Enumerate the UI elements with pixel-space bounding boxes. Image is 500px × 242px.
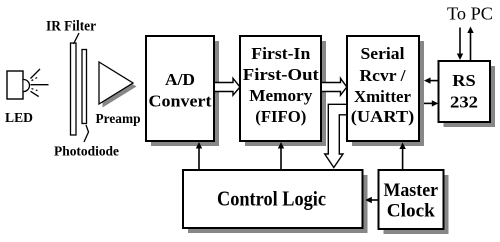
svg-text:LED: LED — [5, 111, 33, 126]
wire Control Logic to FIFO — [278, 142, 284, 170]
svg-text:IR Filter: IR Filter — [46, 18, 96, 34]
svg-text:Xmitter: Xmitter — [354, 87, 411, 106]
IR filter slat — [71, 43, 77, 135]
LED light rays — [31, 69, 49, 97]
svg-text:Control Logic: Control Logic — [217, 187, 326, 211]
wire Master Clock to Control Logic — [365, 197, 378, 203]
svg-text:Preamp: Preamp — [96, 112, 141, 127]
leader line IR Filter — [74, 33, 80, 44]
block UART — [347, 36, 419, 141]
svg-text:(UART): (UART) — [351, 107, 415, 126]
block FIFO memory shadow — [245, 41, 326, 146]
hollow arrow A/D to FIFO — [213, 78, 240, 95]
hollow arrow FIFO to UART — [321, 78, 347, 95]
block A/D Converter shadow — [151, 41, 219, 146]
svg-text:Clock: Clock — [387, 201, 435, 222]
block A/D Converter — [146, 36, 214, 141]
svg-text:(FIFO): (FIFO) — [255, 107, 306, 126]
block Master Clock shadow — [384, 175, 449, 234]
block Control Logic — [183, 170, 363, 228]
svg-text:Convert: Convert — [149, 92, 212, 111]
svg-text:First-Out: First-Out — [243, 65, 319, 84]
preamp amplifier A1 — [99, 62, 133, 104]
svg-text:Rcvr /: Rcvr / — [360, 66, 406, 85]
svg-text:Memory: Memory — [249, 86, 312, 105]
wire RS-232 to PC — [467, 27, 473, 61]
svg-text:Serial: Serial — [361, 44, 405, 63]
svg-text:A/D: A/D — [165, 70, 195, 89]
svg-text:First-In: First-In — [251, 44, 311, 63]
svg-text:Master: Master — [384, 180, 439, 201]
leader line Photodiode — [84, 125, 89, 142]
svg-text:Photodiode: Photodiode — [54, 145, 119, 160]
preamp amplifier shadow — [103, 66, 137, 108]
svg-text:RS: RS — [452, 71, 476, 90]
block RS-232 — [439, 61, 491, 122]
block UART shadow — [352, 41, 424, 146]
svg-text:232: 232 — [450, 93, 478, 112]
svg-text:To PC: To PC — [447, 4, 493, 24]
wire PC to RS-232 — [457, 28, 463, 61]
wire UART to RS-232 — [424, 100, 438, 106]
LED D1 — [7, 71, 30, 99]
wire Control Logic to A/D — [196, 142, 202, 170]
block FIFO memory — [240, 36, 321, 141]
hollow elbow arrow UART to Control Logic — [325, 104, 347, 167]
block Control Logic shadow — [188, 175, 368, 233]
photodiode slat — [82, 50, 87, 124]
block RS-232 shadow — [444, 66, 496, 127]
block Master Clock — [379, 170, 444, 229]
wire RS-232 to UART — [424, 77, 439, 83]
wire Master Clock to UART — [399, 143, 405, 171]
